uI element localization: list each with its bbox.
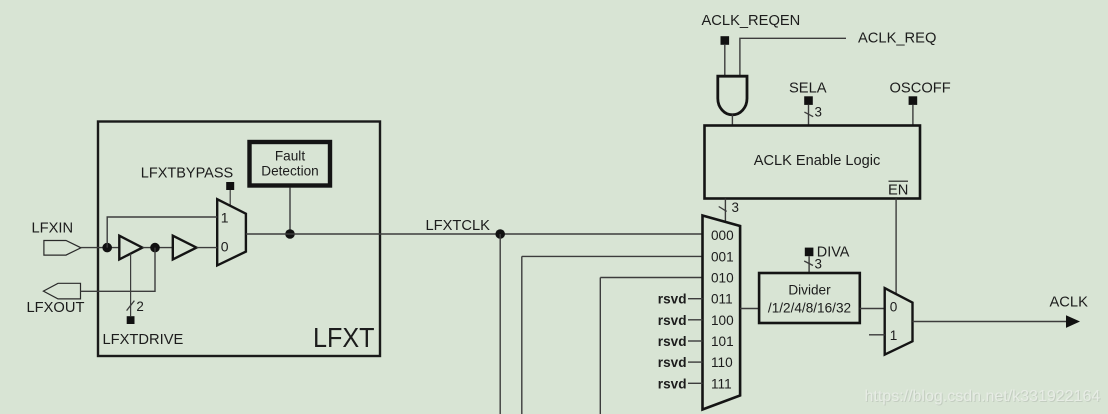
svg-text:3: 3 <box>732 200 739 215</box>
mux U3 (8:1 source select) <box>703 216 741 410</box>
svg-text:0: 0 <box>890 300 898 315</box>
wire: AND gate output <box>731 115 733 126</box>
wire: rsvd stub 011 <box>688 298 703 300</box>
svg-text:/1/2/4/8/16/32: /1/2/4/8/16/32 <box>768 301 851 316</box>
LFXT box <box>98 122 380 357</box>
wire: buffer A1 to buffer A2 <box>142 247 172 249</box>
wire: buffer A2 to mux input 0 <box>197 247 218 249</box>
ACLK arrowhead <box>1066 315 1080 328</box>
svg-text:ACLK Enable Logic: ACLK Enable Logic <box>754 153 881 169</box>
wire: LFXTCLK down <box>499 234 501 414</box>
svg-text:3: 3 <box>815 105 822 120</box>
svg-text:Divider: Divider <box>788 283 831 298</box>
buffer A1 <box>119 236 142 260</box>
svg-text:OSCOFF: OSCOFF <box>890 81 951 97</box>
svg-text:101: 101 <box>711 334 734 349</box>
svg-text:100: 100 <box>711 313 734 328</box>
wire: SELA to box <box>808 105 810 126</box>
svg-text:ACLK_REQ: ACLK_REQ <box>858 31 936 47</box>
ACLK_REQEN control square <box>721 36 730 45</box>
wire: REFOCLK to mux input 010 <box>600 277 702 279</box>
svg-text:1: 1 <box>890 328 898 343</box>
svg-text:rsvd: rsvd <box>658 376 687 391</box>
svg-text:rsvd: rsvd <box>658 334 687 349</box>
svg-text:110: 110 <box>711 355 733 370</box>
wire: VLOCLK riser <box>521 256 523 414</box>
svg-text:3: 3 <box>815 257 822 272</box>
node: fault junction dot <box>285 229 295 239</box>
node: dot2 <box>150 243 160 253</box>
svg-text:000: 000 <box>711 228 734 243</box>
buffer A2 <box>173 236 197 260</box>
wire: bypass path to mux input 1 <box>107 217 217 248</box>
bus slash SELA <box>804 112 813 117</box>
LFXTBYPASS control square <box>226 182 234 190</box>
wire: LFXOUT feedback <box>81 248 156 292</box>
LFXOUT port connector <box>43 283 80 299</box>
bus slash select <box>719 207 727 212</box>
node: dot1 <box>102 243 112 253</box>
LFXTDRIVE control square <box>127 316 135 324</box>
svg-text:001: 001 <box>711 249 734 264</box>
mux U1 (bypass mux) <box>217 199 246 265</box>
divider box U4 <box>759 273 860 323</box>
mux U5 (ACLK gate mux) <box>885 288 913 355</box>
wire: VLOCLK to mux input 001 <box>522 255 703 257</box>
wire: EN to output mux select <box>895 199 897 295</box>
wire: ACLK_REQEN to AND gate <box>724 45 726 76</box>
OSCOFF control square <box>909 96 918 105</box>
wire: rsvd stub 101 <box>688 340 703 342</box>
DIVA control square <box>805 248 814 257</box>
svg-text:1: 1 <box>221 209 229 225</box>
wire: rsvd stub 110 <box>688 361 703 363</box>
svg-text:011: 011 <box>711 292 733 307</box>
wire: divider to output mux <box>860 308 885 310</box>
svg-text:ACLK: ACLK <box>1050 295 1089 311</box>
wire: rsvd stub 111 <box>688 382 703 384</box>
svg-text:ACLK_REQEN: ACLK_REQEN <box>702 13 801 29</box>
svg-text:111: 111 <box>711 376 732 391</box>
SELA control square <box>804 96 813 105</box>
wire: fault detection to LFXTCLK line <box>289 188 291 234</box>
svg-text:rsvd: rsvd <box>658 292 687 307</box>
wire: LFXIN to buffer <box>81 247 119 249</box>
svg-text:rsvd: rsvd <box>658 355 687 370</box>
svg-text:Detection: Detection <box>261 164 318 179</box>
wire: mux to divider <box>740 308 759 310</box>
wire: ACLK_REQ to AND gate <box>740 38 846 76</box>
svg-text:LFXT: LFXT <box>313 322 375 353</box>
svg-text:rsvd: rsvd <box>658 313 687 328</box>
Fault Detection box <box>250 142 331 186</box>
svg-text:LFXTBYPASS: LFXTBYPASS <box>141 165 233 181</box>
wire: LFXTCLK <box>246 233 703 235</box>
svg-text:0: 0 <box>221 239 229 255</box>
node: LFXTCLK branch dot <box>495 229 505 239</box>
wire: select bus to big mux <box>724 199 726 223</box>
svg-text:2: 2 <box>136 299 143 314</box>
wire: rsvd stub 100 <box>688 319 703 321</box>
svg-text:LFXIN: LFXIN <box>32 221 74 237</box>
wire: OSCOFF to box <box>912 105 914 126</box>
bus slash DIVA <box>804 261 813 266</box>
svg-text:SELA: SELA <box>789 81 827 97</box>
svg-text:LFXOUT: LFXOUT <box>27 300 85 316</box>
svg-text:LFXTDRIVE: LFXTDRIVE <box>103 332 184 348</box>
svg-text:LFXTCLK: LFXTCLK <box>426 218 491 234</box>
wire: LFXTDRIVE to buffer <box>130 254 132 316</box>
wire: DIVA to divider <box>808 256 810 273</box>
ACLK Enable Logic box U2 <box>705 126 921 199</box>
wire: mux input 1 stub <box>869 334 885 336</box>
wire: ACLK output <box>913 321 1069 323</box>
AND gate G1 <box>718 76 747 115</box>
wire: REFOCLK riser <box>599 278 601 414</box>
svg-text:EN: EN <box>888 183 908 199</box>
svg-text:010: 010 <box>711 271 734 286</box>
bus slash LFXTDRIVE <box>127 301 135 311</box>
LFXIN port connector <box>44 241 81 256</box>
svg-text:Fault: Fault <box>275 149 305 164</box>
wire: LFXTBYPASS square to mux <box>229 190 231 206</box>
svg-text:https://blog.csdn.net/k3319221: https://blog.csdn.net/k331922164 <box>865 388 1101 405</box>
